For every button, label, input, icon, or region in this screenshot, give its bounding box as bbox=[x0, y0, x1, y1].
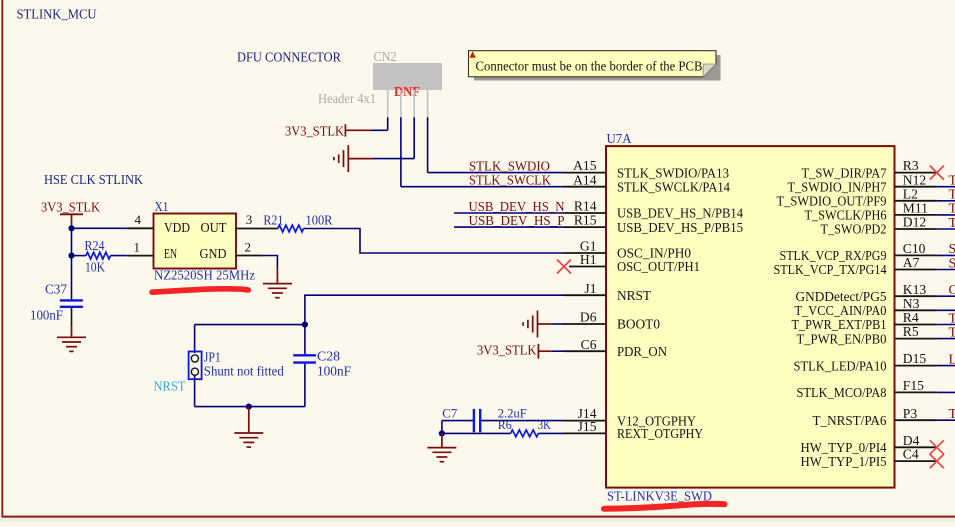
svg-text:3K: 3K bbox=[538, 418, 552, 432]
wire STLK_SWDIO bbox=[428, 172, 564, 174]
note fold bbox=[703, 64, 716, 77]
svg-text:NZ2520SH 25MHz: NZ2520SH 25MHz bbox=[154, 268, 255, 283]
capacitor C28 plate1 bbox=[293, 354, 316, 356]
wire T_PWR_EXT/PB1 net bbox=[937, 324, 955, 326]
ground (X1) bbox=[263, 283, 292, 285]
svg-text:T_SWDIO_OUT/PF9: T_SWDIO_OUT/PF9 bbox=[777, 195, 887, 210]
wire CN2 pin3 drop bbox=[413, 117, 415, 158]
power port 3V3_STLK (PDR_ON) bracket bbox=[537, 344, 539, 359]
ground (BOOT0) bbox=[537, 311, 539, 338]
svg-text:NRST: NRST bbox=[154, 379, 186, 394]
svg-text:STLK_MCO/PA8: STLK_MCO/PA8 bbox=[797, 386, 887, 401]
svg-text:USB_DEV_HS_P/PB15: USB_DEV_HS_P/PB15 bbox=[617, 221, 743, 236]
pin K13 stub bbox=[895, 295, 937, 297]
svg-text:2: 2 bbox=[245, 239, 252, 254]
capacitor C28 plate2 bbox=[293, 361, 316, 363]
svg-text:D4: D4 bbox=[903, 433, 920, 448]
svg-text:T_PWR_EXT/PB1: T_PWR_EXT/PB1 bbox=[792, 318, 887, 333]
wire C28 upper bbox=[304, 325, 306, 355]
svg-text:Header 4x1: Header 4x1 bbox=[318, 92, 376, 107]
svg-text:T: T bbox=[949, 188, 955, 203]
wire T_SWO/PD2 net bbox=[937, 228, 955, 230]
wire USB_DEV_HS_P bbox=[454, 226, 564, 228]
pin N12 stub bbox=[895, 186, 937, 188]
ground stub (BOOT0) bbox=[538, 323, 552, 325]
pin 1 stub bbox=[128, 255, 154, 257]
wire T_SWDIO_IN/PH7 net bbox=[937, 186, 955, 188]
pin 2 stub bbox=[236, 255, 263, 257]
power port 3V3_STLK (PDR_ON) stub bbox=[538, 350, 551, 352]
svg-text:R6: R6 bbox=[498, 418, 513, 432]
no-connect X (C4) bbox=[930, 454, 944, 468]
pin J15 stub bbox=[564, 432, 607, 434]
wire to R24 bbox=[72, 255, 87, 257]
CN2 pin stub 1 bbox=[387, 90, 389, 117]
ground stub (DFU) bbox=[348, 158, 374, 160]
svg-text:T_SW_DIR/PA7: T_SW_DIR/PA7 bbox=[802, 166, 887, 181]
ground (C7) bbox=[427, 447, 456, 449]
svg-text:STLINK_MCU: STLINK_MCU bbox=[17, 8, 97, 23]
svg-text:BOOT0: BOOT0 bbox=[617, 318, 660, 333]
svg-text:USB_DEV_HS_N/PB14: USB_DEV_HS_N/PB14 bbox=[617, 207, 743, 222]
svg-text:Shunt not fitted: Shunt not fitted bbox=[204, 365, 284, 380]
wire R24 to X1 pin1 bbox=[111, 255, 128, 257]
pin G1 stub bbox=[564, 252, 607, 254]
svg-text:F15: F15 bbox=[903, 378, 924, 393]
svg-text:10K: 10K bbox=[85, 261, 105, 276]
oscillator X1 body bbox=[154, 214, 237, 269]
svg-text:C28: C28 bbox=[317, 350, 340, 365]
pin P3 stub bbox=[895, 419, 937, 421]
wire BOOT0 bbox=[552, 323, 565, 325]
svg-text:HW_TYP_0/PI4: HW_TYP_0/PI4 bbox=[801, 441, 887, 456]
pin F15 stub bbox=[895, 391, 937, 393]
ground (C37) bbox=[57, 336, 86, 338]
no-connect X (D4) bbox=[930, 440, 944, 454]
svg-text:3V3_STLK: 3V3_STLK bbox=[285, 124, 344, 139]
svg-text:D6: D6 bbox=[580, 310, 597, 325]
svg-text:DNF: DNF bbox=[394, 85, 420, 100]
svg-text:S: S bbox=[949, 256, 955, 271]
junction 3V3 rail / X1 VDD bbox=[68, 225, 74, 231]
wire loop top bbox=[195, 324, 305, 326]
capacitor C37 plate2 bbox=[60, 306, 83, 308]
wire C28 lower bbox=[304, 364, 306, 407]
wire CN2 pin1 drop bbox=[387, 117, 389, 130]
resistor R6 bbox=[511, 430, 539, 437]
svg-text:C6: C6 bbox=[581, 337, 597, 352]
power port 3V3_STLK (HSE) bar bbox=[60, 213, 83, 215]
svg-text:S: S bbox=[949, 242, 955, 257]
note shadow bbox=[474, 55, 721, 81]
ground stem (X1) bbox=[276, 270, 278, 284]
pin R3 stub bbox=[895, 172, 937, 174]
jumper JP1 box bbox=[189, 352, 202, 380]
pin M11 stub bbox=[895, 214, 937, 216]
wire T_SWCLK/PH6 net bbox=[937, 214, 955, 216]
svg-text:R15: R15 bbox=[574, 213, 597, 228]
pin 4 stub bbox=[128, 227, 154, 229]
svg-text:R24: R24 bbox=[85, 239, 105, 254]
wire T_PWR_EN/PB0 net bbox=[937, 338, 955, 340]
svg-text:X1: X1 bbox=[155, 200, 169, 215]
svg-text:VDD: VDD bbox=[164, 221, 190, 236]
svg-text:C4: C4 bbox=[903, 447, 919, 462]
svg-text:STLK_SWDIO: STLK_SWDIO bbox=[469, 160, 550, 175]
pin R15 stub bbox=[564, 226, 607, 228]
pin C10 stub bbox=[895, 254, 937, 256]
svg-text:D12: D12 bbox=[903, 215, 927, 230]
svg-text:PDR_ON: PDR_ON bbox=[617, 345, 667, 360]
svg-text:STLK_SWCLK/PA14: STLK_SWCLK/PA14 bbox=[617, 180, 730, 195]
CN2 pin stub 3 bbox=[413, 90, 415, 117]
svg-text:100nF: 100nF bbox=[317, 365, 351, 380]
note body bbox=[469, 51, 717, 77]
capacitor C37 plate1 bbox=[60, 299, 83, 301]
svg-text:T: T bbox=[949, 202, 955, 217]
svg-text:U7A: U7A bbox=[607, 132, 633, 147]
pin A7 stub bbox=[895, 269, 937, 271]
ground stem (JP1) bbox=[248, 407, 250, 433]
pin C4 stub bbox=[895, 460, 937, 462]
wire R6 to REXT bbox=[538, 432, 563, 434]
marker underline (NZ2520SH) bbox=[152, 289, 248, 292]
pin D4 stub bbox=[895, 446, 937, 448]
wire C37 lower lead bbox=[71, 307, 73, 325]
wire STLK_VCP_TX/PG14 net bbox=[937, 269, 955, 271]
capacitor C7 plate2 bbox=[479, 409, 481, 432]
power port 3V3_STLK (DFU) stub bbox=[345, 129, 371, 131]
svg-text:3: 3 bbox=[246, 212, 253, 227]
pin H1 stub bbox=[569, 266, 606, 268]
ground (JP1) bbox=[234, 432, 263, 434]
svg-text:Connector must be on the borde: Connector must be on the border of the P… bbox=[476, 58, 703, 73]
pin R4 stub bbox=[895, 324, 937, 326]
pin L2 stub bbox=[895, 200, 937, 202]
CN2 pin stub 4 bbox=[427, 90, 429, 117]
svg-text:L2: L2 bbox=[903, 186, 918, 201]
svg-text:J1: J1 bbox=[584, 281, 596, 296]
junction NRST node bbox=[302, 322, 308, 328]
svg-text:R21: R21 bbox=[263, 214, 283, 229]
wire GNDDetect/PG5 net bbox=[937, 295, 955, 297]
connector CN2 body bbox=[373, 63, 442, 90]
pin D15 stub bbox=[895, 365, 937, 367]
svg-text:N3: N3 bbox=[903, 296, 920, 311]
svg-text:C37: C37 bbox=[45, 283, 67, 298]
svg-text:HSE CLK STLINK: HSE CLK STLINK bbox=[44, 173, 143, 188]
wire X1 pin2 down bbox=[263, 256, 278, 270]
svg-text:T: T bbox=[949, 407, 955, 422]
pin A15 stub bbox=[564, 172, 607, 174]
svg-text:4: 4 bbox=[135, 212, 142, 227]
wire to X1 pin4 bbox=[72, 227, 128, 229]
sheet border left bbox=[1, 0, 3, 517]
svg-text:EN: EN bbox=[164, 247, 177, 262]
wire STLK_SWCLK bbox=[401, 186, 564, 188]
wire C7 left lead bbox=[442, 420, 473, 422]
resistor R24 bbox=[86, 252, 111, 259]
svg-text:T_VCC_AIN/PA0: T_VCC_AIN/PA0 bbox=[795, 304, 887, 319]
svg-text:100nF: 100nF bbox=[30, 309, 63, 324]
svg-text:T_SWDIO_IN/PH7: T_SWDIO_IN/PH7 bbox=[788, 180, 887, 195]
wire C7 drop bbox=[441, 421, 443, 434]
pin J1 stub bbox=[564, 294, 607, 296]
wire to R6 bbox=[442, 432, 511, 434]
jumper JP1 pad1 bbox=[191, 355, 198, 362]
svg-text:A7: A7 bbox=[903, 255, 920, 270]
svg-text:OUT: OUT bbox=[201, 221, 227, 236]
svg-text:K13: K13 bbox=[903, 282, 927, 297]
svg-text:HW_TYP_1/PI5: HW_TYP_1/PI5 bbox=[801, 455, 887, 470]
sheet border bottom bbox=[2, 516, 955, 518]
svg-text:USB_DEV_HS_N: USB_DEV_HS_N bbox=[469, 200, 565, 215]
mcu U7A body bbox=[606, 146, 895, 488]
wire gnd to CN2 pin3 bbox=[374, 158, 414, 160]
svg-text:STLK_VCP_TX/PG14: STLK_VCP_TX/PG14 bbox=[774, 263, 887, 278]
svg-text:G: G bbox=[949, 283, 955, 298]
power port 3V3_STLK (DFU) bracket bbox=[344, 124, 346, 136]
svg-text:STLK_SWDIO/PA13: STLK_SWDIO/PA13 bbox=[617, 166, 729, 181]
svg-text:GNDDetect/PG5: GNDDetect/PG5 bbox=[796, 290, 887, 305]
svg-text:NRST: NRST bbox=[617, 289, 651, 304]
svg-text:C10: C10 bbox=[903, 241, 926, 256]
ground (DFU pin3) bbox=[347, 145, 349, 172]
wire USB_DEV_HS_N bbox=[454, 212, 564, 214]
pin C6 stub bbox=[564, 350, 607, 352]
svg-text:DFU CONNECTOR: DFU CONNECTOR bbox=[237, 51, 342, 66]
wire loop left upper bbox=[194, 325, 196, 353]
svg-text:T_SWO/PD2: T_SWO/PD2 bbox=[821, 223, 887, 238]
pin R14 stub bbox=[564, 212, 607, 214]
svg-text:USB_DEV_HS_P: USB_DEV_HS_P bbox=[469, 214, 565, 229]
svg-text:3V3_STLK: 3V3_STLK bbox=[41, 200, 100, 215]
svg-text:STLK_LED/PA10: STLK_LED/PA10 bbox=[794, 359, 887, 374]
svg-text:T: T bbox=[949, 311, 955, 326]
svg-text:OSC_OUT/PH1: OSC_OUT/PH1 bbox=[617, 260, 700, 275]
svg-text:T_SWCLK/PH6: T_SWCLK/PH6 bbox=[805, 209, 887, 224]
svg-text:STLK_SWCLK: STLK_SWCLK bbox=[469, 174, 551, 189]
svg-text:T: T bbox=[949, 216, 955, 231]
wire loop bottom bbox=[195, 406, 305, 408]
resistor R21 bbox=[278, 225, 304, 232]
wire NRST bbox=[305, 295, 564, 324]
svg-text:N12: N12 bbox=[903, 172, 927, 187]
capacitor C7 plate1 bbox=[473, 409, 475, 432]
wire rail bbox=[71, 228, 73, 299]
svg-text:P3: P3 bbox=[903, 406, 918, 421]
svg-text:CN2: CN2 bbox=[374, 50, 397, 65]
wire CN2 pin4 drop bbox=[427, 117, 429, 172]
svg-text:100R: 100R bbox=[306, 214, 334, 229]
marker underline (ST-LINKV3E_SWD) bbox=[604, 504, 725, 509]
junction 3V3 rail / R24 bbox=[68, 253, 74, 259]
svg-text:GND: GND bbox=[200, 247, 227, 262]
ground stem (C37) bbox=[71, 325, 73, 337]
wire STLK_VCP_RX/PG9 net bbox=[937, 254, 955, 256]
svg-text:H1: H1 bbox=[580, 252, 597, 267]
pin N3 stub bbox=[895, 309, 937, 311]
wire T_SWDIO_OUT/PF9 net bbox=[937, 200, 955, 202]
svg-text:R3: R3 bbox=[903, 158, 919, 173]
junction gnd loop bbox=[246, 404, 252, 410]
power port 3V3_STLK (HSE) stem bbox=[71, 214, 73, 228]
wire CN2 pin2 drop bbox=[400, 117, 402, 187]
svg-text:R5: R5 bbox=[903, 324, 919, 339]
wire STLK_MCO/PA8 net bbox=[937, 391, 955, 393]
no-connect X (H1) bbox=[557, 260, 571, 274]
svg-text:REXT_OTGPHY: REXT_OTGPHY bbox=[617, 427, 703, 442]
svg-text:1: 1 bbox=[134, 239, 141, 254]
svg-text:L: L bbox=[949, 352, 955, 367]
svg-text:JP1: JP1 bbox=[204, 351, 221, 366]
jumper JP1 pad2 bbox=[191, 368, 198, 375]
wire R21 to OSC_IN bbox=[304, 229, 564, 254]
note corner triangle bbox=[469, 51, 475, 58]
pin D6 stub bbox=[564, 323, 607, 325]
no-connect X (R3) bbox=[930, 166, 944, 180]
wire T_VCC_AIN/PA0 net bbox=[937, 309, 955, 311]
pin D12 stub bbox=[895, 228, 937, 230]
svg-text:T: T bbox=[949, 174, 955, 189]
svg-text:T: T bbox=[949, 325, 955, 340]
pin 3 stub bbox=[236, 228, 278, 230]
junction C7/R6/gnd bbox=[439, 430, 445, 436]
wire PDR_ON bbox=[552, 350, 565, 352]
svg-text:C7: C7 bbox=[442, 406, 458, 420]
pin R5 stub bbox=[895, 338, 937, 340]
svg-text:R4: R4 bbox=[903, 310, 919, 325]
wire C7 to V12_OTGPHY bbox=[481, 420, 563, 422]
svg-text:T_PWR_EN/PB0: T_PWR_EN/PB0 bbox=[797, 332, 887, 347]
pin J14 stub bbox=[564, 420, 607, 422]
CN2 pin stub 2 bbox=[400, 90, 402, 117]
wire 3V3 to CN2 pin1 bbox=[371, 129, 388, 131]
wire STLK_LED/PA10 net bbox=[937, 365, 955, 367]
wire T_NRST/PA6 net bbox=[937, 419, 955, 421]
svg-text:T_NRST/PA6: T_NRST/PA6 bbox=[813, 414, 887, 429]
svg-text:A14: A14 bbox=[573, 172, 597, 187]
svg-text:J15: J15 bbox=[578, 419, 597, 434]
svg-text:R14: R14 bbox=[574, 199, 597, 214]
ground stem (C7) bbox=[441, 433, 443, 447]
pin A14 stub bbox=[564, 186, 607, 188]
svg-text:3V3_STLK: 3V3_STLK bbox=[477, 344, 537, 359]
svg-text:STLK_VCP_RX/PG9: STLK_VCP_RX/PG9 bbox=[780, 249, 887, 264]
svg-text:A15: A15 bbox=[573, 158, 597, 173]
svg-text:M11: M11 bbox=[903, 201, 928, 216]
wire loop left lower bbox=[194, 376, 196, 407]
svg-text:D15: D15 bbox=[903, 351, 927, 366]
